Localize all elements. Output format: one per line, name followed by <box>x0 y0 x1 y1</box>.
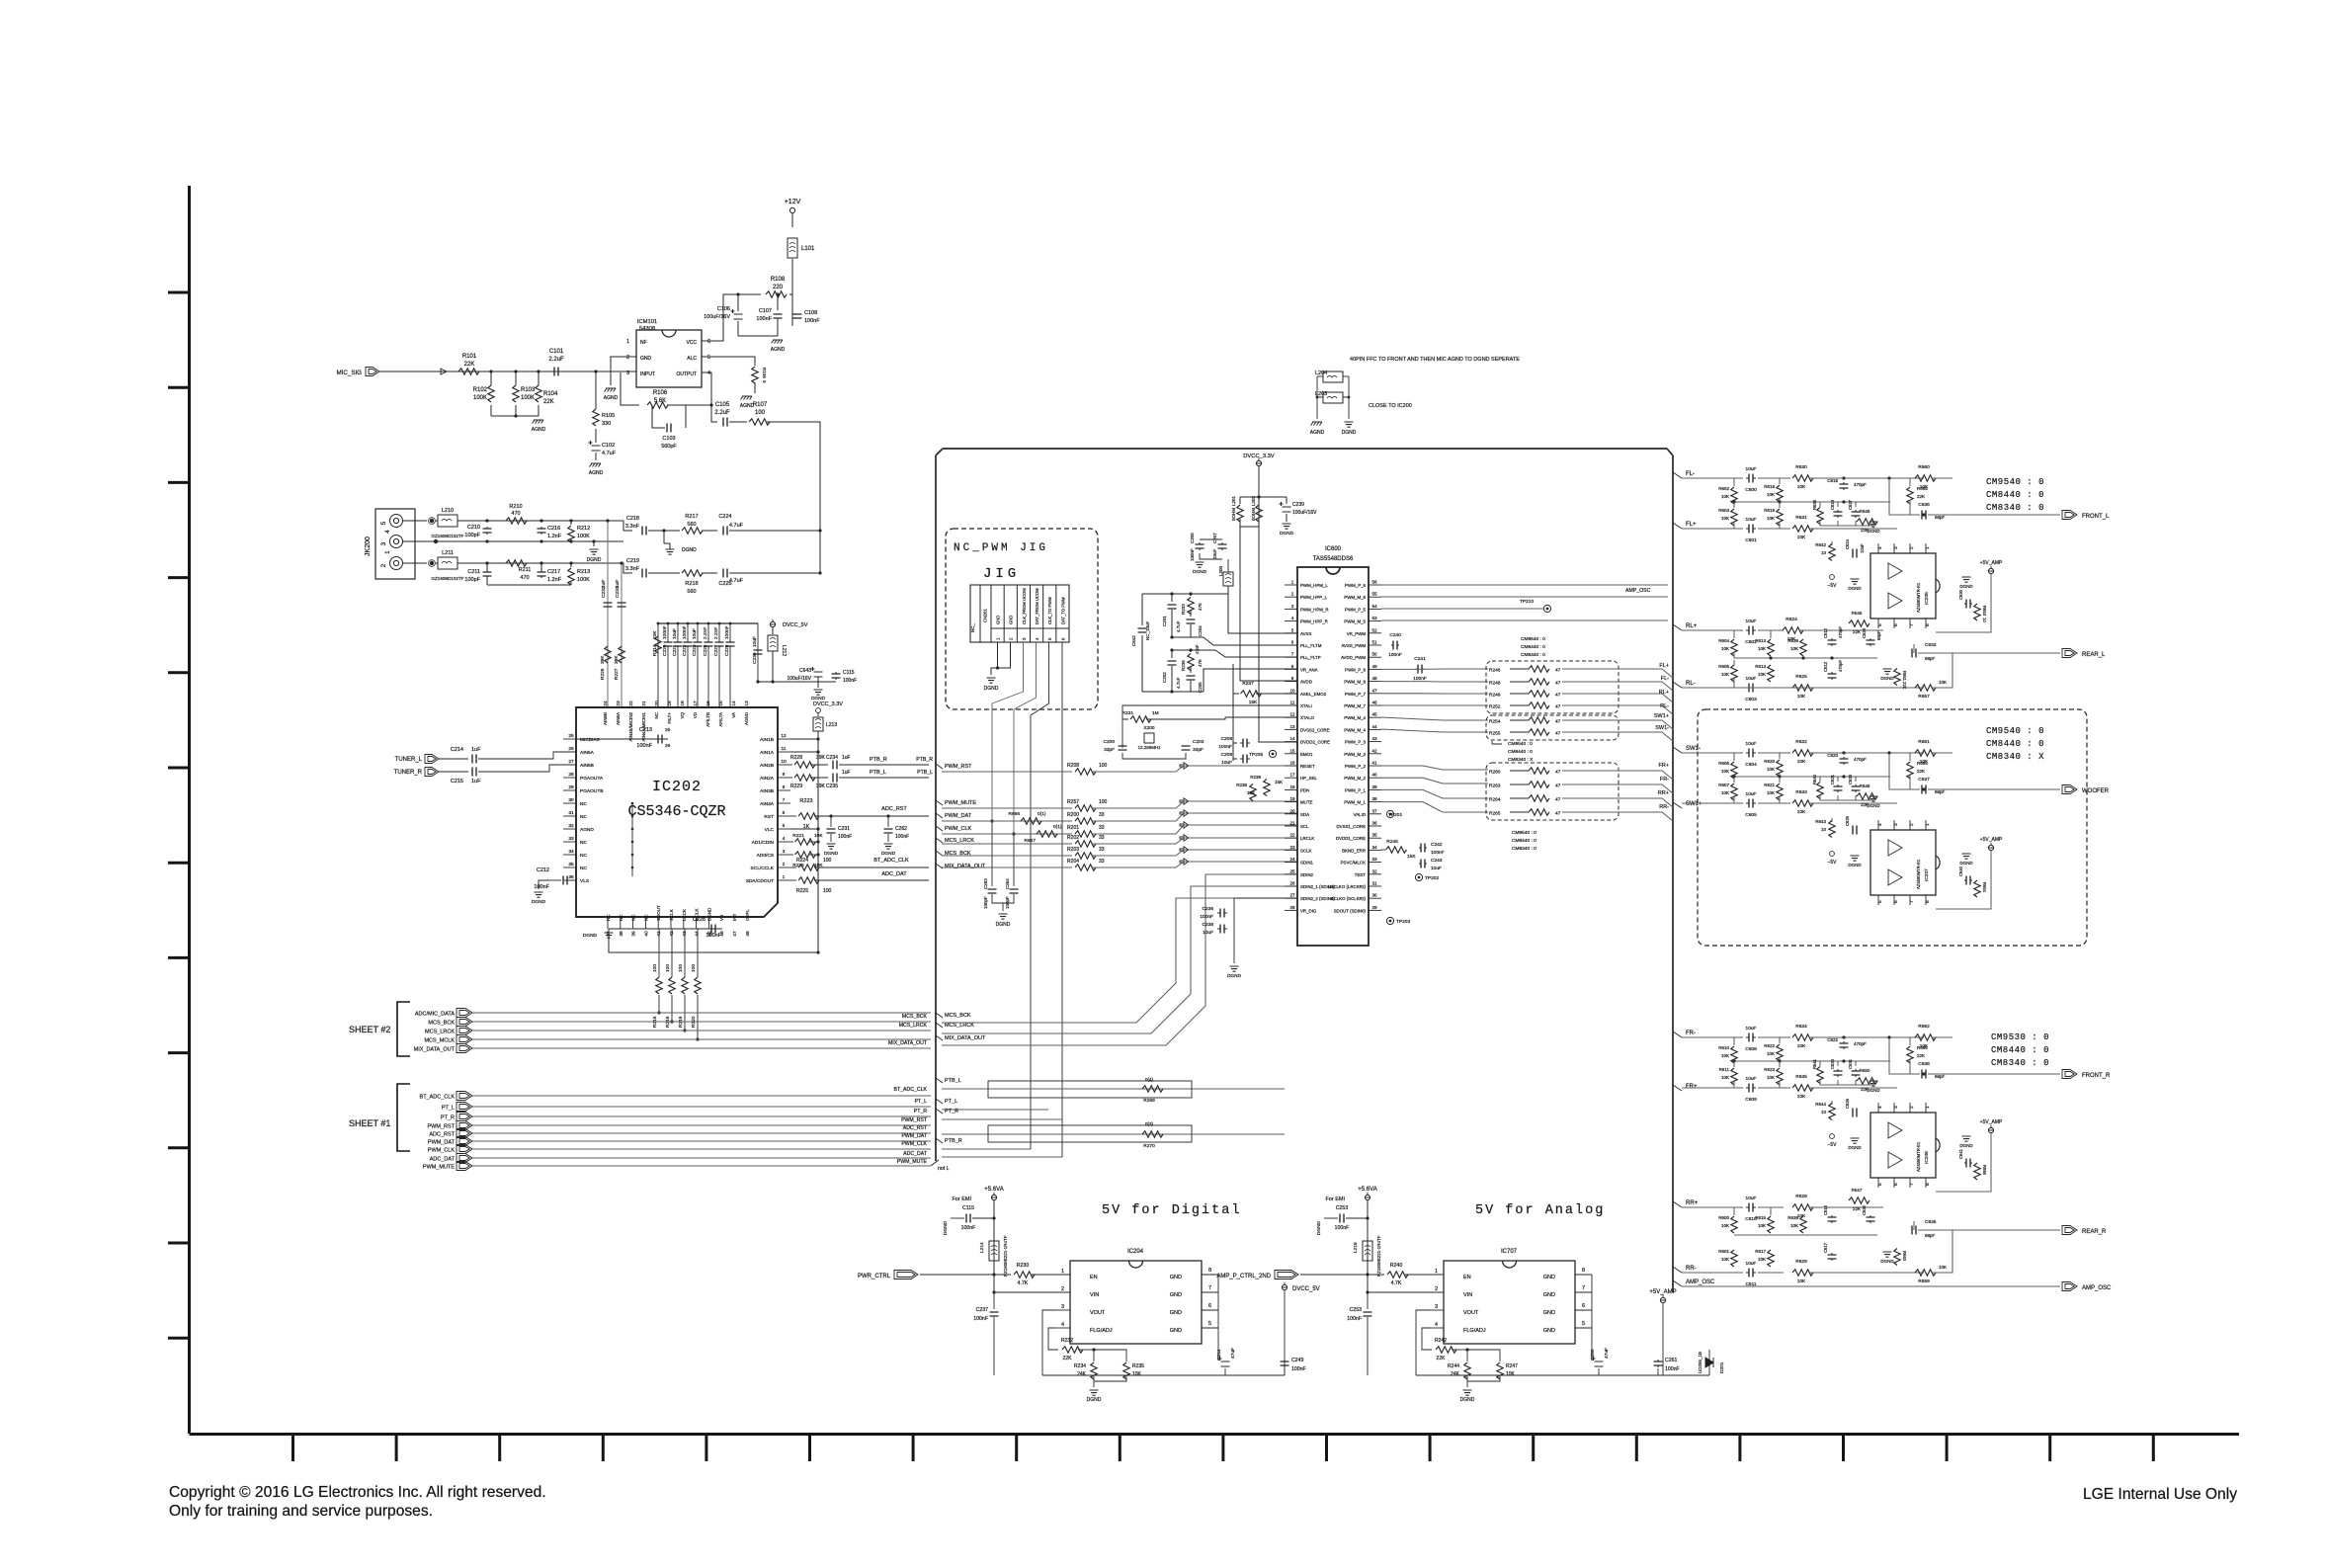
svg-text:RR-: RR- <box>1659 804 1669 810</box>
svg-text:JK200: JK200 <box>365 536 372 556</box>
svg-text:7: 7 <box>1208 1285 1211 1291</box>
svg-text:GND: GND <box>1543 1292 1555 1298</box>
svg-text:24: 24 <box>603 701 609 706</box>
svg-text:PWM_MUTE: PWM_MUTE <box>897 1159 928 1165</box>
svg-text:10K: 10K <box>1721 1223 1729 1228</box>
svg-text:R210: R210 <box>509 504 522 510</box>
svg-text:FL-: FL- <box>1661 676 1669 682</box>
svg-text:PWM_CLK: PWM_CLK <box>428 1148 456 1154</box>
svg-text:10K: 10K <box>1767 516 1775 521</box>
svg-text:R108: R108 <box>771 277 786 283</box>
svg-text:36: 36 <box>1371 821 1377 826</box>
svg-text:33pF: 33pF <box>1193 747 1204 753</box>
svg-text:R654: R654 <box>1982 882 1987 893</box>
svg-text:+5V_AMP: +5V_AMP <box>1980 560 2003 566</box>
svg-text:R240: R240 <box>1390 1263 1403 1269</box>
svg-text:20: 20 <box>1289 808 1295 813</box>
svg-text:NC_10uF: NC_10uF <box>1145 620 1150 640</box>
svg-text:22K: 22K <box>1861 802 1868 807</box>
svg-text:C643: C643 <box>799 668 811 674</box>
svg-text:ADC_RST: ADC_RST <box>903 1125 928 1131</box>
svg-text:C249: C249 <box>1291 1358 1304 1363</box>
svg-text:R623: R623 <box>1764 1067 1775 1072</box>
svg-text:100nF: 100nF <box>534 884 549 890</box>
svg-text:47uF: 47uF <box>1230 1348 1236 1359</box>
svg-text:SHEET #2: SHEET #2 <box>349 1025 390 1034</box>
svg-text:R254: R254 <box>1489 719 1501 725</box>
svg-text:IC208: IC208 <box>1924 1151 1930 1164</box>
svg-text:6: 6 <box>1060 637 1065 640</box>
svg-text:R659: R659 <box>1918 1279 1930 1284</box>
svg-text:R212: R212 <box>577 526 590 532</box>
svg-text:23: 23 <box>616 701 622 706</box>
svg-text:10: 10 <box>1821 1110 1827 1114</box>
svg-text:1: 1 <box>1061 1269 1064 1275</box>
svg-text:ALC: ALC <box>687 356 697 362</box>
svg-text:C107: C107 <box>759 308 772 314</box>
svg-text:68pF: 68pF <box>1935 515 1946 520</box>
svg-text:R635: R635 <box>1795 1074 1807 1080</box>
svg-text:47: 47 <box>1555 770 1561 776</box>
svg-text:9: 9 <box>783 772 786 778</box>
svg-text:R249: R249 <box>1489 693 1501 699</box>
svg-text:L219: L219 <box>1353 1242 1359 1253</box>
svg-text:33: 33 <box>1371 857 1377 862</box>
svg-text:AMP_OSC: AMP_OSC <box>1625 588 1651 594</box>
svg-text:C623: C623 <box>1830 1058 1835 1069</box>
svg-text:NC: NC <box>580 814 587 820</box>
svg-text:R645: R645 <box>1860 509 1870 514</box>
svg-text:PWM_HPP_L: PWM_HPP_L <box>1300 595 1328 600</box>
svg-text:R201: R201 <box>1067 825 1079 831</box>
svg-text:CM9540 : 0: CM9540 : 0 <box>1512 830 1536 836</box>
svg-text:C642: C642 <box>1131 635 1136 646</box>
svg-text:15: 15 <box>1289 748 1295 753</box>
svg-text:UD255_1B: UD255_1B <box>1698 1352 1702 1373</box>
svg-text:1: 1 <box>1925 823 1931 826</box>
svg-text:1M: 1M <box>1152 710 1159 716</box>
svg-text:AGND: AGND <box>580 827 594 833</box>
svg-text:1: 1 <box>1435 1269 1438 1275</box>
svg-text:AIN3B: AIN3B <box>760 788 774 794</box>
svg-text:R613: R613 <box>1755 638 1766 643</box>
svg-text:C228: C228 <box>693 917 706 923</box>
svg-text:R103: R103 <box>521 387 536 393</box>
svg-text:+5.6VA: +5.6VA <box>1358 1187 1376 1193</box>
svg-text:R238: R238 <box>1236 783 1247 787</box>
svg-text:AD0/CS: AD0/CS <box>757 853 774 859</box>
svg-text:SCL: SCL <box>1300 824 1309 829</box>
svg-text:47: 47 <box>1555 797 1561 803</box>
svg-text:ADC_DAT: ADC_DAT <box>430 1157 456 1163</box>
svg-text:C600: C600 <box>1745 487 1757 493</box>
svg-text:10K: 10K <box>1797 694 1806 700</box>
svg-text:SCLK: SCLK <box>669 909 674 921</box>
svg-text:DGND: DGND <box>1848 586 1862 591</box>
svg-text:AIN1B: AIN1B <box>760 737 774 743</box>
svg-text:NC: NC <box>619 914 623 921</box>
svg-text:AFILTB: AFILTB <box>706 712 710 727</box>
svg-text:C214: C214 <box>451 747 463 753</box>
svg-text:100nF: 100nF <box>895 834 909 840</box>
svg-text:CM9540 : 0: CM9540 : 0 <box>1521 636 1545 642</box>
svg-text:47: 47 <box>1555 719 1561 725</box>
svg-text:4: 4 <box>1061 1322 1064 1328</box>
svg-text:R236: R236 <box>1181 660 1186 671</box>
svg-text:RR-: RR- <box>1686 1266 1697 1272</box>
svg-text:R620: R620 <box>1764 759 1775 764</box>
svg-text:For EMI: For EMI <box>952 1197 971 1202</box>
svg-text:43: 43 <box>1371 736 1377 741</box>
svg-text:C622: C622 <box>1827 1037 1838 1042</box>
svg-text:470pF: 470pF <box>1854 482 1867 487</box>
svg-text:VOUT: VOUT <box>1090 1310 1106 1316</box>
svg-text:C632: C632 <box>1862 1204 1867 1215</box>
svg-text:100nF: 100nF <box>843 678 857 684</box>
svg-text:10uF: 10uF <box>1746 517 1757 523</box>
svg-text:PWM_CLK: PWM_CLK <box>901 1141 927 1147</box>
svg-text:2.2nF: 2.2nF <box>703 627 708 639</box>
svg-text:DGND: DGND <box>881 851 896 857</box>
svg-text:5: 5 <box>1582 1321 1585 1327</box>
svg-text:PWM_M_7: PWM_M_7 <box>1344 703 1366 708</box>
svg-text:11: 11 <box>782 746 787 752</box>
svg-text:100nF: 100nF <box>682 625 688 639</box>
svg-text:10uF: 10uF <box>1431 866 1442 871</box>
svg-text:VQ: VQ <box>680 712 685 719</box>
svg-text:11: 11 <box>1290 701 1295 705</box>
svg-text:ADC_DAT: ADC_DAT <box>903 1151 928 1157</box>
svg-text:R629: R629 <box>1795 1259 1807 1265</box>
svg-text:+5V_AMP: +5V_AMP <box>1980 837 2003 843</box>
svg-text:R242: R242 <box>1435 1338 1447 1344</box>
svg-text:44: 44 <box>1371 724 1377 729</box>
svg-text:R662: R662 <box>1918 1024 1930 1030</box>
svg-text:GND: GND <box>640 356 652 362</box>
svg-text:RST: RST <box>764 814 774 820</box>
svg-text:6: 6 <box>1893 900 1899 903</box>
svg-text:VR_ANA: VR_ANA <box>1300 667 1318 672</box>
svg-text:R650: R650 <box>1860 1068 1870 1073</box>
svg-text:R255: R255 <box>1489 731 1501 737</box>
svg-text:DVCC_3.3V: DVCC_3.3V <box>1243 454 1275 459</box>
svg-text:R102: R102 <box>473 387 488 393</box>
svg-text:FR-: FR- <box>1686 1031 1696 1036</box>
svg-text:AFILTA: AFILTA <box>718 712 723 727</box>
svg-text:100: 100 <box>1099 763 1108 769</box>
svg-text:17: 17 <box>693 701 699 706</box>
svg-text:R200: R200 <box>1067 812 1079 818</box>
svg-text:15K: 15K <box>1247 790 1255 795</box>
svg-text:AIN6B: AIN6B <box>603 712 608 725</box>
svg-text:FR+: FR+ <box>1658 763 1669 769</box>
svg-text:IC205: IC205 <box>1924 592 1930 605</box>
svg-text:ADC_RST: ADC_RST <box>429 1132 455 1138</box>
svg-text:13: 13 <box>744 701 750 706</box>
svg-text:RL-: RL- <box>1660 703 1669 709</box>
svg-text:68pF: 68pF <box>1935 789 1946 794</box>
svg-text:C209: C209 <box>1221 752 1233 758</box>
svg-text:PWM_M_3: PWM_M_3 <box>1344 752 1366 757</box>
svg-text:R228: R228 <box>790 755 802 761</box>
svg-text:R665: R665 <box>1982 1165 1987 1176</box>
svg-text:55: 55 <box>1371 592 1377 597</box>
svg-text:8: 8 <box>1925 1183 1931 1186</box>
svg-text:10K: 10K <box>1721 1075 1729 1080</box>
svg-text:R610: R610 <box>1718 1045 1729 1050</box>
svg-text:C613: C613 <box>1823 661 1828 672</box>
svg-text:1.2nF: 1.2nF <box>547 534 562 539</box>
svg-text:10K: 10K <box>1721 1053 1729 1058</box>
svg-text:C624: C624 <box>1845 538 1850 549</box>
svg-text:AIN6A: AIN6A <box>616 712 621 725</box>
svg-text:100nF: 100nF <box>1347 1316 1362 1322</box>
svg-text:33: 33 <box>1099 825 1105 831</box>
svg-text:C262: C262 <box>895 826 907 832</box>
svg-text:TP201: TP201 <box>1388 812 1402 818</box>
svg-text:7: 7 <box>1291 652 1294 657</box>
svg-text:R204: R204 <box>1067 859 1079 865</box>
svg-text:100pF: 100pF <box>1005 896 1010 909</box>
svg-text:10K: 10K <box>1797 759 1806 765</box>
svg-text:C234: C234 <box>826 755 838 761</box>
svg-text:10: 10 <box>1982 618 1987 622</box>
svg-text:AGND: AGND <box>744 711 749 725</box>
svg-text:51: 51 <box>1371 640 1377 645</box>
svg-text:2: 2 <box>626 355 629 361</box>
svg-text:48: 48 <box>745 931 751 937</box>
svg-text:DVSS1_CORE: DVSS1_CORE <box>1336 824 1366 829</box>
svg-text:10: 10 <box>1821 827 1827 832</box>
svg-text:R640: R640 <box>1812 774 1817 784</box>
svg-text:10uF: 10uF <box>1860 543 1865 553</box>
svg-text:R202: R202 <box>1067 835 1079 841</box>
svg-text:SDOUT (SDIN6): SDOUT (SDIN6) <box>1334 908 1367 913</box>
svg-text:R665: R665 <box>1917 761 1928 766</box>
svg-text:XTALI: XTALI <box>1300 703 1312 708</box>
svg-text:PWM_P_6: PWM_P_6 <box>1345 583 1367 588</box>
svg-text:1: 1 <box>384 550 391 554</box>
svg-text:38: 38 <box>619 931 624 937</box>
svg-text:470: 470 <box>1198 603 1203 611</box>
svg-text:MCS_LRCK: MCS_LRCK <box>945 838 974 844</box>
svg-text:100nF: 100nF <box>838 834 852 840</box>
svg-text:AGND: AGND <box>771 347 786 353</box>
svg-text:0(1): 0(1) <box>1038 811 1046 817</box>
svg-text:R619: R619 <box>1764 508 1775 513</box>
svg-text:INT: INT <box>732 914 737 922</box>
svg-text:SDOUT: SDOUT <box>656 905 661 921</box>
svg-text:FLG/ADJ: FLG/ADJ <box>1463 1328 1486 1334</box>
svg-text:R628: R628 <box>1795 1194 1807 1199</box>
svg-text:CN201: CN201 <box>983 608 988 622</box>
svg-text:X200: X200 <box>1143 725 1155 731</box>
svg-text:C261: C261 <box>1665 1358 1678 1363</box>
svg-text:PWM_P_2: PWM_P_2 <box>1345 764 1367 769</box>
svg-text:4: 4 <box>1435 1322 1438 1328</box>
svg-text:MCS_BCK: MCS_BCK <box>428 1021 455 1027</box>
svg-text:DGND: DGND <box>532 899 546 905</box>
svg-text:L210: L210 <box>442 508 454 514</box>
svg-text:C609: C609 <box>1745 1097 1757 1103</box>
svg-text:SCL/CCLK: SCL/CCLK <box>751 866 775 871</box>
svg-text:R229: R229 <box>790 784 802 789</box>
svg-text:PT_R: PT_R <box>441 1115 455 1121</box>
svg-text:PWM_M_6: PWM_M_6 <box>1344 595 1366 600</box>
svg-text:14: 14 <box>1289 736 1295 741</box>
svg-text:GZ1608D102TF: GZ1608D102TF <box>431 576 463 581</box>
svg-text:6: 6 <box>1582 1303 1585 1309</box>
svg-text:PWM_P_1: PWM_P_1 <box>1345 787 1367 792</box>
svg-text:CLK_TO PWM: CLK_TO PWM <box>1047 597 1052 624</box>
svg-text:AIN1A: AIN1A <box>760 750 775 756</box>
svg-text:C231: C231 <box>838 826 850 832</box>
svg-text:47: 47 <box>1555 668 1561 674</box>
svg-text:BKND_ERR: BKND_ERR <box>1342 848 1366 853</box>
svg-text:100nF: 100nF <box>961 1225 976 1231</box>
svg-text:R606: R606 <box>1718 761 1729 766</box>
svg-text:R641: R641 <box>1812 1058 1817 1069</box>
svg-text:R264: R264 <box>1489 797 1501 803</box>
svg-text:BT_ADC_CLK: BT_ADC_CLK <box>894 1087 928 1093</box>
svg-text:DGND: DGND <box>943 1220 949 1235</box>
svg-text:VLC: VLC <box>765 827 775 833</box>
svg-text:C253: C253 <box>1336 1205 1349 1211</box>
svg-text:C213: C213 <box>639 727 652 733</box>
svg-text:SDIN2: SDIN2 <box>1300 872 1313 877</box>
svg-text:40PIN FFC TO FRONT AND THEN MI: 40PIN FFC TO FRONT AND THEN MIC AGND TO … <box>1350 357 1520 363</box>
svg-text:2: 2 <box>380 563 387 567</box>
svg-text:R101: R101 <box>462 354 477 360</box>
svg-text:DGND: DGND <box>1087 1397 1102 1403</box>
svg-text:PT_L: PT_L <box>442 1106 455 1112</box>
svg-text:6: 6 <box>1208 1303 1211 1309</box>
svg-text:R661: R661 <box>1918 739 1930 745</box>
svg-text:22K: 22K <box>1861 1087 1868 1092</box>
svg-text:R232: R232 <box>1061 1338 1073 1344</box>
svg-text:15K: 15K <box>1407 854 1416 860</box>
svg-text:PTB_R: PTB_R <box>945 1138 962 1144</box>
svg-text:PWM_M_2: PWM_M_2 <box>1344 776 1366 781</box>
svg-text:25: 25 <box>665 727 671 733</box>
svg-text:R105: R105 <box>602 413 615 419</box>
svg-text:4.7uF: 4.7uF <box>602 451 617 456</box>
svg-text:100nF: 100nF <box>1665 1366 1680 1372</box>
svg-text:MIX_DATA_OUT: MIX_DATA_OUT <box>414 1047 456 1053</box>
svg-text:PWM_M_4: PWM_M_4 <box>1344 715 1366 720</box>
svg-text:CM8340 : 0: CM8340 : 0 <box>1986 503 2044 513</box>
svg-text:TEST: TEST <box>1355 872 1367 877</box>
svg-text:R246: R246 <box>1489 668 1501 674</box>
svg-text:4: 4 <box>1035 637 1039 640</box>
svg-text:470: 470 <box>511 511 520 517</box>
svg-text:R208: R208 <box>1067 763 1079 769</box>
svg-text:C633: C633 <box>1925 642 1937 648</box>
svg-text:10K: 10K <box>1767 1051 1775 1056</box>
svg-text:5: 5 <box>1047 637 1052 640</box>
svg-text:C636: C636 <box>1918 502 1930 508</box>
svg-text:CM8440 : 0: CM8440 : 0 <box>1508 749 1533 755</box>
svg-text:100K: 100K <box>473 395 487 401</box>
svg-text:4: 4 <box>384 530 391 534</box>
svg-text:R269: R269 <box>1143 1098 1155 1104</box>
svg-text:R630: R630 <box>1795 464 1807 470</box>
svg-text:47: 47 <box>1555 811 1561 817</box>
svg-text:220: 220 <box>773 285 784 290</box>
svg-text:EMO1: EMO1 <box>1300 752 1313 757</box>
svg-text:CM8340 : X: CM8340 : X <box>1508 757 1534 763</box>
svg-text:100nF: 100nF <box>724 625 730 639</box>
svg-text:CLK_FROM UCOM: CLK_FROM UCOM <box>1022 588 1027 624</box>
svg-text:5V for Analog: 5V for Analog <box>1475 1203 1605 1218</box>
svg-text:LRCLK: LRCLK <box>1300 836 1314 841</box>
svg-text:39K: 39K <box>614 655 620 664</box>
svg-text:100: 100 <box>823 858 832 864</box>
svg-text:C640: C640 <box>1958 866 1963 876</box>
svg-text:100: 100 <box>755 410 766 416</box>
svg-text:PWM_HPP_R: PWM_HPP_R <box>1300 619 1328 624</box>
svg-text:OUTPUT: OUTPUT <box>676 371 697 377</box>
svg-text:22K: 22K <box>1917 769 1925 774</box>
svg-text:53: 53 <box>1371 616 1377 620</box>
svg-text:R239: R239 <box>1250 775 1261 780</box>
svg-text:5: 5 <box>380 521 387 525</box>
svg-text:10K: 10K <box>1797 484 1806 490</box>
svg-text:VALID: VALID <box>1354 812 1366 817</box>
svg-text:10K: 10K <box>1797 1279 1806 1284</box>
svg-text:PWM_P_7: PWM_P_7 <box>1345 692 1367 697</box>
svg-text:L201: L201 <box>1231 495 1236 506</box>
svg-text:10K: 10K <box>652 630 658 639</box>
svg-text:L211: L211 <box>442 550 454 556</box>
svg-text:DVCC_3.3V: DVCC_3.3V <box>813 701 843 707</box>
svg-text:10K: 10K <box>1797 1213 1806 1219</box>
svg-text:C106: C106 <box>717 306 730 312</box>
svg-text:PT_L: PT_L <box>915 1099 928 1105</box>
svg-text:DAT_TO PWM: DAT_TO PWM <box>1060 597 1065 624</box>
svg-text:NF: NF <box>640 340 647 346</box>
svg-text:12: 12 <box>781 733 787 739</box>
svg-text:R660: R660 <box>1918 464 1930 470</box>
svg-text:LGE Internal Use Only: LGE Internal Use Only <box>2083 1486 2237 1503</box>
svg-text:22: 22 <box>628 701 634 706</box>
svg-text:0(3): 0(3) <box>1145 1121 1154 1126</box>
svg-text:R634: R634 <box>1795 1024 1807 1030</box>
svg-text:560: 560 <box>687 589 696 595</box>
svg-text:3: 3 <box>1022 637 1027 640</box>
svg-text:R663: R663 <box>1902 1251 1907 1262</box>
svg-text:R217: R217 <box>685 514 698 520</box>
svg-text:PTB_L: PTB_L <box>917 770 933 776</box>
svg-text:24K: 24K <box>1451 1371 1460 1377</box>
svg-text:PTB_R: PTB_R <box>916 757 933 763</box>
svg-text:L213: L213 <box>826 722 837 728</box>
svg-text:C237: C237 <box>976 1307 989 1313</box>
svg-text:PLL_FLTP: PLL_FLTP <box>1300 655 1321 660</box>
svg-text:C207: C207 <box>1212 533 1217 543</box>
svg-text:AZ4580MTR-E1: AZ4580MTR-E1 <box>1916 582 1921 613</box>
svg-text:C635: C635 <box>1925 1219 1937 1225</box>
svg-text:DGND: DGND <box>824 851 839 857</box>
svg-text:3: 3 <box>1893 823 1899 826</box>
svg-text:2: 2 <box>1291 592 1294 597</box>
svg-text:ASEL_EMO2: ASEL_EMO2 <box>1300 692 1327 697</box>
svg-text:C620: C620 <box>1827 753 1838 758</box>
svg-text:R109: R109 <box>762 368 767 378</box>
svg-text:100nF: 100nF <box>973 1316 988 1322</box>
svg-text:AVDD_PWM: AVDD_PWM <box>1341 655 1366 660</box>
svg-text:C625: C625 <box>1845 815 1850 826</box>
